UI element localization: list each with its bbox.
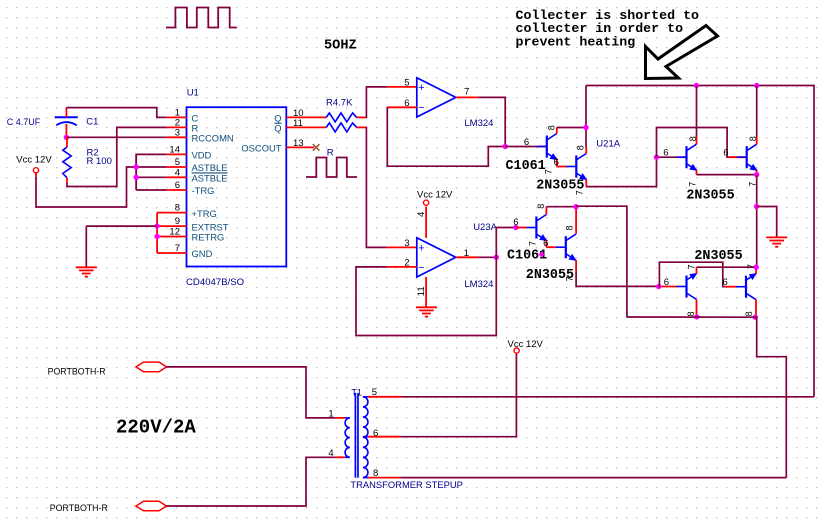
svg-text:9: 9 xyxy=(175,216,180,227)
svg-text:R4.7K: R4.7K xyxy=(326,98,353,109)
svg-text:6: 6 xyxy=(723,277,728,288)
svg-text:VDD: VDD xyxy=(192,150,212,161)
svg-text:R: R xyxy=(327,147,334,158)
svg-text:8: 8 xyxy=(575,145,585,150)
svg-text:ASTBLE: ASTBLE xyxy=(192,173,228,184)
svg-text:C1: C1 xyxy=(86,116,98,127)
svg-text:8: 8 xyxy=(748,136,758,141)
svg-text:7: 7 xyxy=(688,182,698,187)
svg-text:6: 6 xyxy=(513,217,518,228)
svg-text:6: 6 xyxy=(373,428,378,439)
svg-text:8: 8 xyxy=(744,311,754,316)
svg-text:5: 5 xyxy=(404,77,409,88)
svg-text:6: 6 xyxy=(524,137,529,148)
svg-text:2N3055: 2N3055 xyxy=(526,268,574,283)
svg-text:11: 11 xyxy=(416,286,427,296)
svg-text:3: 3 xyxy=(175,127,180,138)
svg-text:+TRG: +TRG xyxy=(192,208,217,219)
svg-text:6: 6 xyxy=(663,148,668,159)
svg-text:8: 8 xyxy=(686,311,696,316)
svg-text:4: 4 xyxy=(416,212,427,217)
svg-text:7: 7 xyxy=(464,86,469,97)
svg-text:prevent heating: prevent heating xyxy=(516,35,636,50)
svg-text:LM324: LM324 xyxy=(464,279,493,290)
svg-text:Vcc 12V: Vcc 12V xyxy=(417,189,453,200)
svg-text:8: 8 xyxy=(547,125,557,130)
svg-text:8: 8 xyxy=(175,203,180,214)
svg-text:Vcc 12V: Vcc 12V xyxy=(508,339,544,350)
svg-text:7: 7 xyxy=(746,264,756,269)
svg-text:8: 8 xyxy=(536,204,546,209)
svg-text:CD4047B/SO: CD4047B/SO xyxy=(186,277,244,288)
svg-text:6: 6 xyxy=(723,148,728,159)
svg-text:5OHZ: 5OHZ xyxy=(324,39,357,54)
svg-text:8: 8 xyxy=(688,136,698,141)
svg-text:PORTBOTH-R: PORTBOTH-R xyxy=(50,503,108,513)
svg-text:6: 6 xyxy=(175,180,180,191)
svg-text:OSCOUT: OSCOUT xyxy=(241,142,281,153)
svg-text:TRANSFORMER STEPUP: TRANSFORMER STEPUP xyxy=(350,479,463,490)
svg-text:2N3055: 2N3055 xyxy=(686,188,734,203)
svg-text:-TRG: -TRG xyxy=(192,185,215,196)
svg-text:4: 4 xyxy=(175,167,180,178)
svg-text:+: + xyxy=(418,242,424,254)
svg-text:C1061: C1061 xyxy=(506,159,546,174)
svg-text:−: − xyxy=(418,262,424,274)
svg-text:6: 6 xyxy=(543,238,548,249)
svg-text:3: 3 xyxy=(404,238,409,249)
svg-text:220V/2A: 220V/2A xyxy=(116,417,196,439)
svg-text:14: 14 xyxy=(169,144,180,155)
svg-text:7: 7 xyxy=(528,241,538,246)
svg-text:13: 13 xyxy=(293,138,304,149)
svg-text:EXTRST: EXTRST xyxy=(192,221,229,232)
svg-text:Vcc 12V: Vcc 12V xyxy=(16,154,52,165)
svg-text:−: − xyxy=(418,102,424,114)
svg-text:C 4.7UF: C 4.7UF xyxy=(7,117,41,127)
svg-text:R 100: R 100 xyxy=(87,156,112,167)
svg-text:6: 6 xyxy=(664,277,669,288)
svg-text:8: 8 xyxy=(565,225,575,230)
svg-text:RCCOMN: RCCOMN xyxy=(192,133,234,144)
svg-text:6: 6 xyxy=(554,157,559,168)
svg-text:7: 7 xyxy=(175,243,180,254)
svg-text:Q: Q xyxy=(274,123,281,134)
svg-text:PORTBOTH-R: PORTBOTH-R xyxy=(48,366,106,376)
svg-text:+: + xyxy=(418,82,424,94)
svg-text:5: 5 xyxy=(372,387,377,398)
svg-text:U1: U1 xyxy=(187,88,199,99)
svg-text:U23A: U23A xyxy=(473,222,497,233)
svg-text:GND: GND xyxy=(192,248,213,259)
svg-text:11: 11 xyxy=(293,118,303,129)
svg-text:8: 8 xyxy=(373,468,378,479)
svg-text:12: 12 xyxy=(169,227,180,238)
svg-text:RETRG: RETRG xyxy=(192,232,225,243)
svg-text:T1: T1 xyxy=(351,387,362,397)
svg-text:7: 7 xyxy=(686,264,696,269)
svg-text:U21A: U21A xyxy=(596,139,620,150)
svg-text:2N3055: 2N3055 xyxy=(536,179,584,194)
svg-text:LM324: LM324 xyxy=(464,118,493,129)
